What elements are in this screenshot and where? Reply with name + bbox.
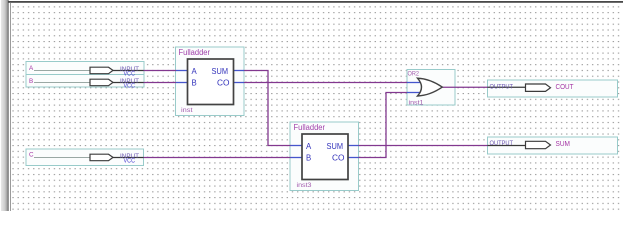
window left edge strip (1, 0, 9, 211)
svg-text:CO: CO (332, 154, 345, 163)
svg-text:Fulladder: Fulladder (294, 123, 326, 132)
input pin C arrow symbol (90, 154, 113, 161)
svg-text:VCC: VCC (124, 159, 136, 165)
svg-text:VCC: VCC (124, 84, 136, 90)
svg-text:C: C (29, 152, 34, 159)
wire: net OR output to output pin COUT (443, 86, 527, 88)
label: OUTPUT of pin SUM (490, 140, 514, 147)
svg-text:B: B (29, 78, 33, 85)
label: U1 pin A (192, 67, 198, 76)
wire: net A to U1.A (144, 70, 188, 72)
label: U1 pin SUM (212, 67, 229, 76)
svg-text:OR2: OR2 (408, 71, 420, 78)
wire: net C to U2.B (144, 157, 303, 159)
canvas left border (10, 3, 11, 212)
svg-text:A: A (306, 142, 312, 151)
label: U2 pin SUM (327, 142, 344, 151)
Fulladder U2 body (302, 134, 348, 180)
wire: net U2.CO to OR input 2 (348, 93, 421, 158)
canvas top border (8, 1, 623, 3)
label: U1 pin B (192, 79, 197, 88)
svg-text:VCC: VCC (124, 72, 136, 78)
svg-text:Fulladder: Fulladder (179, 48, 211, 57)
label: OR2 (408, 71, 420, 78)
input pin C bounding box (26, 149, 144, 166)
label: U1 pin CO (217, 79, 230, 88)
wire: net U2.SUM to output pin SUM (348, 145, 526, 147)
OR gate U3 (inst1) bounding box (407, 70, 455, 106)
label: Fulladder (U1) (179, 48, 211, 57)
input pin B bounding box (26, 75, 144, 88)
svg-text:OUTPUT: OUTPUT (490, 83, 514, 90)
label: pin name COUT (556, 82, 575, 91)
output pin COUT bounding box (488, 80, 618, 97)
svg-text:inst1: inst1 (409, 99, 424, 106)
label: OUTPUT of pin COUT (490, 83, 514, 90)
label: pin name C (29, 152, 34, 159)
wire: pin B internal lead (34, 82, 144, 84)
svg-text:inst: inst (181, 107, 193, 114)
svg-text:SUM: SUM (556, 139, 571, 148)
wire: net U1.CO to OR input 1 (234, 82, 421, 84)
label: Fulladder (U2) (294, 123, 326, 132)
wire: net B to U1.B (144, 82, 188, 84)
svg-text:inst3: inst3 (297, 182, 312, 189)
svg-text:SUM: SUM (212, 67, 229, 76)
wire: net U1.SUM to U2.A (234, 71, 303, 146)
label: inst (181, 107, 193, 114)
label: inst3 (297, 182, 312, 189)
label: INPUT/VCC of pin B (120, 79, 139, 90)
svg-text:CO: CO (217, 79, 230, 88)
wire: pin C internal lead (34, 157, 144, 159)
label: U2 pin CO (332, 154, 345, 163)
svg-text:OUTPUT: OUTPUT (490, 140, 514, 147)
output pin SUM bounding box (488, 137, 618, 154)
output pin COUT arrow symbol (526, 84, 551, 91)
label: inst1 (409, 99, 424, 106)
output pin SUM arrow symbol (526, 141, 551, 148)
svg-text:COUT: COUT (556, 82, 575, 91)
svg-text:B: B (306, 154, 311, 163)
input pin A arrow symbol (90, 67, 113, 74)
label: INPUT/VCC of pin C (120, 154, 139, 165)
input pin A bounding box (26, 62, 144, 77)
label: U2 pin A (306, 142, 312, 151)
svg-text:A: A (192, 67, 198, 76)
label: pin name A (29, 65, 34, 72)
svg-text:SUM: SUM (327, 142, 344, 151)
OR gate U3 body (418, 78, 443, 96)
label: pin name B (29, 78, 33, 85)
Fulladder U1 (inst) bounding box (176, 47, 245, 116)
svg-text:B: B (192, 79, 197, 88)
wire: pin A internal lead (34, 70, 144, 72)
Fulladder U2 (inst3) bounding box (290, 122, 359, 191)
label: pin name SUM (556, 139, 571, 148)
Fulladder U1 body (188, 59, 234, 105)
label: U2 pin B (306, 154, 311, 163)
input pin B arrow symbol (90, 79, 113, 86)
label: INPUT/VCC of pin A (120, 67, 139, 78)
